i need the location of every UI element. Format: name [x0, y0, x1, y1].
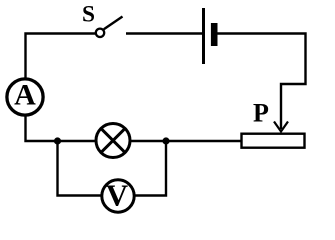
wire top-left: switch to corner to ammeter: [26, 34, 96, 81]
svg-text:V: V: [106, 178, 129, 213]
wiper arrowhead into rheostat: [274, 122, 288, 132]
wire lamp to node B: [129, 140, 166, 142]
battery long plate (positive): [202, 8, 205, 64]
lamp cross line 2: [101, 129, 125, 153]
voltmeter branch left wire: node A down and right: [58, 141, 104, 196]
wire ammeter bottom to lower-left corner to node A: [26, 114, 59, 141]
junction node A dot: [54, 137, 61, 144]
wire node A to lamp: [58, 140, 98, 142]
svg-text:S: S: [82, 2, 95, 27]
wire node B to rheostat P: [166, 140, 242, 142]
junction node B dot: [162, 137, 169, 144]
voltmeter V1 circle: [102, 180, 134, 212]
wire battery to right side, down, jog left, down to wiper arrow: [216, 34, 306, 130]
wire switch to battery: [126, 32, 202, 34]
lamp L1 circle: [96, 124, 130, 158]
battery short thick plate (negative): [211, 23, 218, 46]
lamp cross line 1: [101, 129, 125, 153]
switch S blade (open): [104, 17, 123, 30]
voltmeter branch right wire: voltmeter to node B: [133, 141, 166, 196]
svg-text:P: P: [253, 99, 269, 128]
rheostat P body: [242, 134, 305, 148]
switch S pivot circle: [96, 29, 104, 37]
svg-text:A: A: [14, 79, 36, 112]
ammeter A1 circle: [7, 79, 43, 115]
